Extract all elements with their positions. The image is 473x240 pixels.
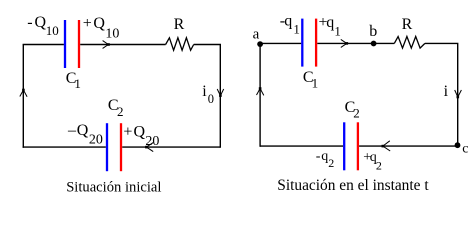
- wire bottom segment left of C2 (right circuit): [260, 145, 343, 147]
- wire left side of right loop: [259, 44, 261, 147]
- charging arrow right on top wire: [103, 41, 110, 49]
- svg-text:a: a: [253, 26, 260, 42]
- svg-text:c: c: [462, 141, 468, 156]
- node a dot: [257, 41, 263, 47]
- current arrow up on left wire: [20, 89, 27, 97]
- svg-text:R: R: [402, 16, 413, 33]
- capacitor C2 left plate (blue): [106, 123, 108, 171]
- wire bottom segment left of C2: [23, 146, 106, 148]
- svg-text:i: i: [444, 83, 449, 100]
- charging arrow left on bottom wire: [145, 143, 153, 152]
- wire from C1 to resistor: [80, 44, 165, 46]
- wire from node a to C1: [260, 42, 301, 44]
- capacitor C1 left plate (blue, right circuit): [301, 19, 303, 67]
- node b dot: [371, 41, 377, 47]
- capacitor C1 left plate (blue): [64, 20, 66, 68]
- charging arrow left on bottom wire (right circuit): [382, 141, 391, 151]
- current arrow up on left wire (right circuit): [257, 87, 264, 95]
- wire from resistor to top-right corner and right side: [194, 45, 221, 148]
- wire from resistor to top-right corner and right side: [425, 43, 458, 145]
- capacitor C1 right plate (red, right circuit): [315, 19, 317, 67]
- resistor R (right) zigzag: [394, 37, 425, 49]
- wire from node b to resistor: [374, 42, 395, 44]
- svg-text:Situación inicial: Situación inicial: [66, 179, 161, 195]
- resistor R (left) zigzag: [166, 38, 194, 50]
- svg-text:R: R: [174, 16, 185, 33]
- capacitor C2 left plate (blue, right circuit): [343, 122, 345, 170]
- capacitor C1 right plate (red): [78, 20, 80, 68]
- svg-text:Situación en el instante t: Situación en el instante t: [277, 177, 429, 194]
- charging arrow right on top wire (right circuit): [341, 39, 348, 47]
- svg-text:b: b: [369, 23, 377, 40]
- current arrow i down on right wire: [455, 90, 462, 98]
- wire left side of left loop: [22, 45, 24, 148]
- capacitor C2 right plate (red, right circuit): [357, 122, 359, 170]
- wire top-left segment from corner to C1: [23, 44, 64, 46]
- wire bottom segment right of C2: [122, 146, 220, 148]
- wire bottom segment right of C2 (right circuit): [359, 145, 458, 147]
- capacitor C2 right plate (red): [120, 123, 122, 171]
- current arrow i0 down on right wire: [217, 89, 224, 97]
- wire from C1 to node b: [317, 42, 373, 44]
- node c dot: [455, 142, 461, 148]
